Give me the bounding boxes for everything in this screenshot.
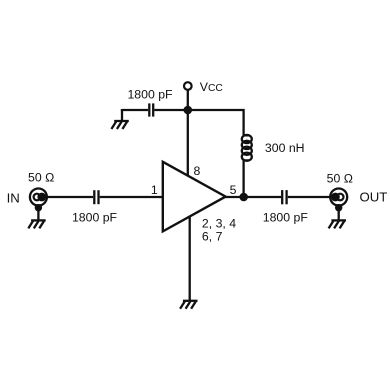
svg-text:50 Ω: 50 Ω xyxy=(327,172,353,186)
svg-text:1: 1 xyxy=(151,183,158,197)
svg-text:1800 pF: 1800 pF xyxy=(127,87,173,101)
svg-text:8: 8 xyxy=(193,164,200,178)
svg-text:VCC: VCC xyxy=(200,80,224,94)
svg-text:5: 5 xyxy=(230,183,237,197)
svg-text:300 nH: 300 nH xyxy=(265,141,305,155)
svg-text:IN: IN xyxy=(7,190,20,205)
svg-text:6, 7: 6, 7 xyxy=(202,229,223,243)
svg-text:1800 pF: 1800 pF xyxy=(263,211,309,225)
svg-text:1800 pF: 1800 pF xyxy=(72,211,118,225)
svg-text:50 Ω: 50 Ω xyxy=(28,171,54,185)
svg-text:OUT: OUT xyxy=(360,190,388,205)
